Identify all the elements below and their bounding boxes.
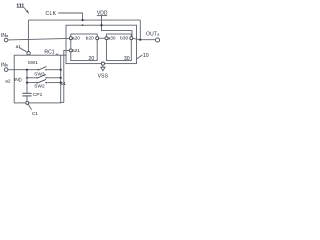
arrowhead of 111 leader (26, 10, 29, 14)
svg-text:SW1: SW1 (28, 60, 39, 66)
wire SW3 row right (47, 77, 61, 79)
node C1 (26, 101, 29, 104)
node a30 (105, 37, 108, 40)
svg-text:VSS: VSS (98, 73, 109, 79)
switch SW3 right contact (45, 77, 47, 79)
wire VDD stem (101, 16, 103, 26)
svg-text:VDD: VDD (97, 10, 108, 16)
svg-text:a30: a30 (108, 36, 116, 42)
wire CLK horizontal rail (28, 19, 140, 21)
switch SW1 blade (39, 67, 47, 70)
svg-text:10: 10 (143, 53, 149, 59)
svg-text:CLK: CLK (46, 11, 57, 17)
wire a21 to node C1 (64, 50, 70, 102)
block 20 box (71, 34, 97, 61)
wire RC1 box top stub (61, 54, 66, 56)
switch SW1 right contact (45, 69, 47, 71)
wire node a2 vertical branch (26, 70, 28, 83)
junction OUTa wire (139, 39, 141, 41)
node b30 (130, 37, 133, 40)
resistor RC1 box (14, 55, 61, 103)
junction SW2/CP1 (26, 82, 28, 84)
svg-text:a2: a2 (5, 79, 11, 85)
svg-text:RC1: RC1 (44, 50, 54, 56)
switch SW2 right contact (45, 82, 47, 84)
block 30 box (107, 34, 132, 61)
leader line for reference 111 (24, 8, 27, 12)
junction SW3 at b1 (60, 77, 62, 79)
svg-text:111: 111 (16, 3, 24, 9)
leader line for RC1 (56, 54, 58, 55)
wire CLK drop to node a1 (27, 20, 29, 51)
svg-text:SW3: SW3 (34, 71, 45, 77)
wire SW2 row left (27, 82, 36, 84)
wire SW2 row right (47, 82, 60, 84)
ground VSS arrow (101, 67, 105, 71)
svg-text:C1: C1 (32, 111, 38, 117)
svg-text:a20: a20 (72, 36, 80, 42)
power VDD bar (97, 15, 107, 17)
capacitor CP1 bottom plate (22, 95, 31, 97)
junction INb/a2 (26, 69, 28, 71)
wire CP1 top lead (26, 83, 28, 94)
leader line for block 10 (137, 55, 143, 59)
switch SW2 left contact (36, 82, 38, 84)
junction CLK rail (82, 19, 84, 21)
switch SW3 left contact (36, 77, 38, 79)
svg-text:CP1: CP1 (33, 92, 43, 98)
node a21 (69, 49, 72, 52)
junction SW1 at b1 (60, 69, 62, 71)
switch SW2 blade (37, 79, 46, 83)
wire SW1 to node b1 (47, 69, 61, 71)
wire CLK label lead (58, 13, 82, 20)
svg-text:30: 30 (124, 56, 130, 62)
terminal OUTa (155, 38, 159, 42)
wire b20 to a30 (99, 37, 105, 39)
wire INa to a20 (8, 38, 69, 40)
svg-text:20: 20 (89, 56, 95, 62)
capacitor CP1 top plate (22, 92, 31, 94)
wire CP1 bottom lead (26, 96, 28, 102)
junction VDD on box 10 (100, 24, 102, 26)
node VSS on box 10 (101, 62, 104, 65)
node b20 (96, 37, 99, 40)
svg-text:b30: b30 (120, 36, 128, 42)
wire VDD feed to b30 (102, 25, 133, 37)
leader line for node a1 (20, 48, 27, 52)
terminal INa (4, 38, 8, 42)
switch SW3 blade (37, 75, 46, 78)
terminal INb (4, 68, 8, 72)
node a20 (69, 37, 72, 40)
svg-text:a21: a21 (72, 48, 80, 54)
junction SW3 left (26, 77, 28, 79)
switch SW1 left contact (37, 69, 39, 71)
leader line for node C1 (28, 104, 31, 109)
wire C1 bottom stub (61, 102, 64, 104)
wire b30 to OUTa (133, 38, 156, 39)
svg-text:a1: a1 (16, 44, 22, 50)
svg-text:SW2: SW2 (34, 84, 45, 90)
wire right vertical to OUTa junction (139, 20, 141, 40)
svg-text:b20: b20 (86, 36, 94, 42)
junction SW2 at b1 (60, 82, 62, 84)
node a1 (27, 52, 30, 55)
block 10 outer box (66, 25, 137, 63)
wire INb to SW1 (8, 69, 38, 71)
svg-text:IN(): IN() (14, 77, 22, 83)
junction CLK on box 10 (82, 24, 84, 26)
svg-text:b1: b1 (61, 81, 67, 87)
wire SW3 row left (27, 77, 36, 79)
ground VSS stem (102, 65, 104, 68)
